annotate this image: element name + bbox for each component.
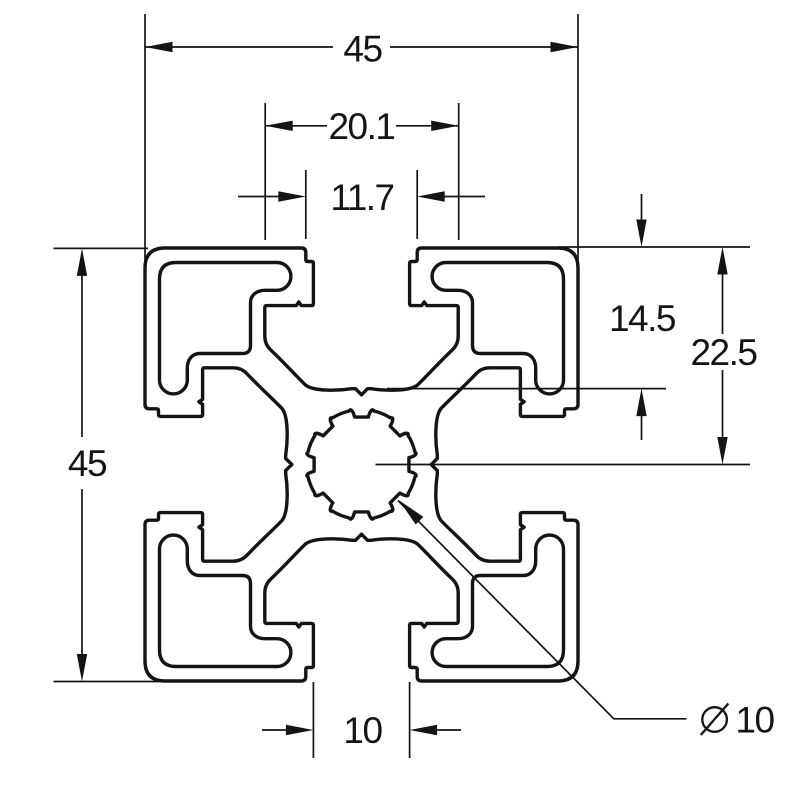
dim tails 10 <box>262 729 461 731</box>
arrow 45 left <box>145 42 173 52</box>
arrow 45left top <box>77 248 87 276</box>
arrow 11.7 left <box>278 191 306 201</box>
dim line 22.5 <box>722 272 724 438</box>
arrow leader dia10 <box>399 500 423 524</box>
top-left corner chamber <box>160 263 291 394</box>
dim tails 11.7 <box>238 196 485 198</box>
ext line x=409.6 <box>409 682 411 758</box>
arrow 45 right <box>551 42 579 52</box>
ext line x=313.4 <box>312 682 314 758</box>
ext line left x=145 <box>144 14 146 263</box>
center splined bore <box>307 410 416 519</box>
arrow 14.5 bottom <box>636 389 646 417</box>
svg-text:14.5: 14.5 <box>609 298 676 339</box>
arrow 11.7 right <box>417 191 445 201</box>
leader line dia10 <box>398 501 687 719</box>
arrow 14.5 top <box>636 220 646 248</box>
dim line 45 left <box>81 273 83 657</box>
dim line 45 top <box>145 46 578 48</box>
diameter symbol circle <box>702 707 727 732</box>
ext line y=681.5 left <box>54 681 206 683</box>
svg-text:22.5: 22.5 <box>690 332 757 373</box>
dim line 20.1 <box>265 125 459 127</box>
bottom-right corner chamber <box>432 535 563 666</box>
profile outer contour with T-slots <box>145 248 578 681</box>
top-right corner chamber <box>432 263 563 394</box>
arrow 22.5 bottom <box>717 437 727 465</box>
arrow 20.1 right <box>431 121 459 131</box>
arrow 20.1 left <box>265 121 293 131</box>
svg-text:45: 45 <box>343 29 382 70</box>
ext line y=247 right <box>558 246 750 248</box>
svg-text:11.7: 11.7 <box>330 177 393 218</box>
svg-text:45: 45 <box>68 443 107 484</box>
ext line y=248.4 left <box>54 247 149 249</box>
svg-text:20.1: 20.1 <box>328 106 394 147</box>
arrow 10 right <box>410 725 438 735</box>
ext line x=305.8 <box>305 170 307 239</box>
arrow 22.5 top <box>717 247 727 275</box>
ext line y=388.6 <box>387 388 666 390</box>
arrow 45left bottom <box>77 654 87 682</box>
ext centerline y=464.5 <box>376 464 751 466</box>
arrow tails 14.5 <box>641 194 643 440</box>
bottom-left corner chamber <box>160 535 291 666</box>
svg-text:10: 10 <box>343 710 382 751</box>
ext line right x=578 <box>577 14 579 263</box>
arrow 10 left <box>286 725 314 735</box>
ext line x=265 <box>264 103 266 240</box>
ext line x=458.7 <box>458 103 460 240</box>
svg-text:10: 10 <box>735 700 774 741</box>
diameter symbol slash <box>701 704 729 736</box>
ext line x=417.2 <box>416 170 418 239</box>
